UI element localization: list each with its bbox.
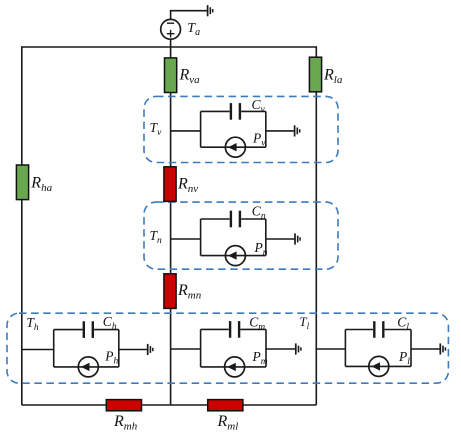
- svg-text:Tv: Tv: [150, 120, 163, 138]
- current source Ph: [54, 357, 119, 377]
- ground (m cell): [296, 343, 301, 354]
- svg-text:Pl: Pl: [398, 349, 410, 367]
- wire: top rail: [22, 46, 317, 48]
- resistor Rml: [208, 400, 243, 411]
- svg-text:Pv: Pv: [252, 131, 266, 149]
- wire: left rail: [21, 46, 23, 405]
- resistor Rva: [165, 58, 177, 93]
- svg-text:Tn: Tn: [150, 228, 163, 246]
- wire: RC loop left side (h cell): [53, 330, 55, 367]
- ground (top, at Ta): [208, 5, 213, 16]
- ground (v cell): [295, 125, 300, 136]
- svg-text:Tl: Tl: [299, 314, 309, 331]
- wire: to ground (m cell): [266, 348, 296, 350]
- resistor Rla: [309, 57, 321, 92]
- wire: RC loop right side (v cell): [265, 111, 267, 147]
- wire: RC loop right side (l cell): [410, 330, 412, 367]
- resistor Rnv: [164, 167, 176, 202]
- capacitor Ch: [54, 321, 119, 338]
- wire: RC loop left side (l cell): [344, 330, 346, 367]
- svg-text:Ph: Ph: [104, 349, 118, 367]
- capacitor Cm: [201, 321, 266, 338]
- dashed compartment box Tn: [144, 202, 338, 269]
- svg-text:Rnv: Rnv: [177, 175, 198, 195]
- wire: to ground (l cell): [411, 348, 440, 350]
- wire: RC loop right side (m cell): [265, 329, 267, 367]
- current source Pm: [201, 357, 266, 377]
- wire: RC loop left side (m cell): [200, 329, 202, 367]
- wire: node Tm stub: [171, 348, 201, 350]
- ground (h cell): [148, 344, 153, 355]
- wire: middle rail: [170, 39, 172, 405]
- svg-text:Rha: Rha: [30, 175, 52, 195]
- svg-text:Rva: Rva: [179, 67, 201, 87]
- wire: to ground (n cell): [266, 238, 295, 240]
- wire: node Tv stub: [171, 130, 201, 132]
- wire: to ground (v cell): [266, 130, 295, 132]
- current source Pv: [201, 137, 266, 157]
- wire: RC loop left side (v cell): [200, 111, 202, 147]
- voltage source Ta (ambient temperature): [161, 19, 181, 39]
- svg-text:Rmn: Rmn: [177, 282, 202, 302]
- capacitor Cn: [201, 211, 266, 228]
- resistor Rmh: [106, 400, 141, 411]
- current source Pn: [201, 246, 266, 266]
- wire: RC loop right side (h cell): [118, 330, 120, 367]
- wire: node Tn stub: [171, 238, 201, 240]
- wire: bottom rail: [22, 404, 317, 406]
- wire: right rail: [315, 46, 317, 405]
- wire: source to top ground: [171, 11, 208, 20]
- resistor Rmn: [164, 274, 176, 309]
- dashed compartment box Tv: [144, 96, 338, 162]
- dashed compartment box Th/Tm/Tl: [7, 313, 448, 383]
- ground (n cell): [295, 233, 300, 244]
- current source Pl: [345, 356, 411, 376]
- capacitor Cl: [345, 321, 411, 338]
- svg-text:Rmh: Rmh: [113, 413, 138, 432]
- svg-text:Rla: Rla: [323, 67, 343, 87]
- wire: RC loop left side (n cell): [200, 219, 202, 256]
- svg-text:Cv: Cv: [252, 97, 266, 115]
- svg-text:Ta: Ta: [187, 21, 200, 38]
- wire: node Th stub: [22, 349, 54, 351]
- svg-text:Rml: Rml: [217, 413, 239, 432]
- wire: RC loop right side (n cell): [265, 219, 267, 256]
- svg-text:Th: Th: [26, 315, 39, 333]
- ground (l cell): [440, 343, 445, 354]
- wire: to ground (h cell): [119, 349, 148, 351]
- resistor Rha: [16, 165, 28, 200]
- capacitor Cv: [201, 103, 266, 120]
- wire: node Tl stub: [316, 348, 345, 350]
